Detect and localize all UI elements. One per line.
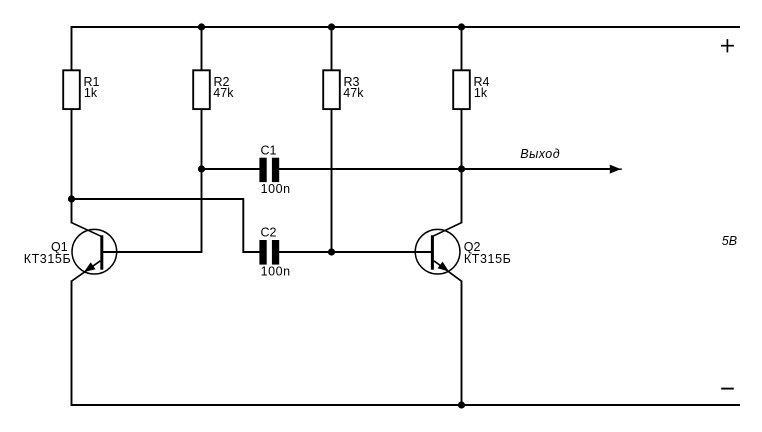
svg-text:1k: 1k (84, 86, 98, 100)
resistor R3 (323, 70, 340, 109)
node Q2 emitter / bottom rail (458, 401, 465, 408)
wire R4 top lead (461, 26, 463, 71)
svg-text:47k: 47k (213, 86, 234, 100)
wire C1 right lead to output node (279, 168, 462, 170)
resistor R1 (63, 70, 80, 109)
label R1 1k (84, 75, 100, 100)
output arrowhead (610, 165, 621, 174)
svg-text:C1: C1 (261, 143, 277, 157)
svg-text:100n: 100n (261, 265, 291, 279)
svg-text:C2: C2 (261, 225, 277, 239)
wire Q1 base wire (103, 251, 202, 253)
svg-text:КТ315Б: КТ315Б (24, 252, 72, 266)
wire R3 bottom lead down to Q2 base node (331, 109, 333, 253)
label Q1 KT315B (24, 240, 72, 266)
minus terminal symbol (721, 388, 734, 390)
wire Q1 collector node to C2 (cross-coupling) (72, 199, 260, 252)
wire top positive rail (71, 26, 741, 28)
wire C1 left lead (202, 168, 260, 170)
plus terminal symbol (721, 39, 734, 52)
node output / R4 / C1 / Q2 collector (458, 165, 465, 172)
transistor Q1 (72, 223, 117, 282)
wire R3 top lead (331, 26, 333, 71)
svg-text:5В: 5В (722, 234, 737, 248)
resistor R2 (193, 70, 210, 109)
wire C2 right lead / Q2 base wire (279, 251, 431, 253)
wire output node down to Q2 collector (461, 169, 463, 223)
resistor R4 (453, 70, 470, 109)
wire R2 bottom lead down to Q1 base corner (201, 109, 203, 253)
wire Q1 emitter to bottom rail (71, 281, 73, 406)
label C1 100n (261, 143, 291, 196)
wire R4 bottom lead to output node (461, 109, 463, 169)
node top rail / R3 (328, 23, 335, 30)
wire R2 top lead (201, 26, 203, 71)
svg-text:1k: 1k (474, 86, 488, 100)
node top rail / R2 (198, 23, 205, 30)
wire bottom negative rail (71, 404, 741, 406)
label R3 47k (343, 75, 364, 100)
node R3 / C2 / Q2 base (328, 248, 335, 255)
wire R1 bottom lead to Q1 collector (71, 109, 73, 223)
svg-text:47k: 47k (343, 86, 364, 100)
wire R1 top lead (71, 26, 73, 71)
wire output arrow line (462, 168, 613, 170)
label Q2 KT315B (464, 240, 512, 266)
label R2 47k (213, 75, 234, 100)
svg-text:Выход: Выход (520, 147, 560, 161)
transistor Q2 (415, 223, 461, 282)
svg-text:КТ315Б: КТ315Б (464, 252, 512, 266)
label C2 100n (261, 225, 291, 278)
label R4 1k (474, 75, 490, 100)
svg-text:100n: 100n (261, 182, 291, 196)
node R2 / C1 / Q1 base (198, 165, 205, 172)
node Q1 collector / C2 coupling (68, 195, 75, 202)
capacitor C1 (259, 158, 279, 182)
wire Q2 emitter to bottom rail (461, 281, 463, 406)
capacitor C2 (259, 240, 279, 265)
node top rail / R4 (458, 23, 465, 30)
